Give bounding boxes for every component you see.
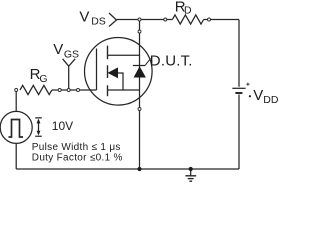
node RD right terminal [208, 18, 211, 21]
svg-text:V: V [79, 8, 89, 25]
wire right rail lower [238, 95, 240, 170]
wire bottom rail [16, 168, 239, 170]
VDS probe [109, 13, 117, 27]
svg-text:Duty Factor ≤0.1 %: Duty Factor ≤0.1 % [32, 152, 123, 163]
wire top rail right (RD to corner) [204, 19, 239, 21]
MOSFET drain contact bar [108, 54, 140, 56]
leader line to D.U.T. label [145, 58, 150, 65]
VGS probe [63, 59, 76, 89]
10V arrow head up [37, 119, 41, 124]
pulse waveform inside generator [9, 120, 24, 138]
ground bar 2 [188, 178, 194, 180]
svg-text:D: D [184, 5, 192, 17]
junction dot ground-bottom rail [189, 167, 193, 171]
svg-text:V: V [253, 87, 263, 104]
svg-text:DD: DD [263, 94, 279, 106]
wire gate (RG to gate bar) [52, 89, 97, 91]
ground bar 3 [189, 180, 192, 182]
ground stem [190, 169, 192, 176]
wire right rail upper [238, 20, 240, 87]
body diode triangle [134, 66, 146, 77]
MOSFET gate bar [96, 49, 98, 91]
node source terminal [138, 108, 141, 111]
MOSFET body arrow tail [117, 73, 124, 90]
MOSFET drain-source vertical line [139, 20, 141, 170]
battery plus sign [246, 83, 249, 86]
ground bar 1 [185, 175, 196, 177]
junction dot source-bottom rail [137, 167, 141, 171]
node RD left terminal [164, 18, 167, 21]
svg-text:G: G [39, 73, 47, 85]
node top rail junction [138, 18, 141, 21]
battery VDD plates [232, 87, 245, 89]
resistor RD [172, 15, 203, 24]
node gate wire terminal 3 [77, 89, 80, 92]
battery minus dot [249, 95, 251, 97]
svg-text:GS: GS [64, 48, 79, 60]
wire RG terminal down to pulse generator [15, 91, 17, 111]
node gate wire terminal 1 [58, 89, 61, 92]
MOSFET channel dash source [107, 85, 109, 96]
MOSFET body arrow head [108, 67, 119, 78]
svg-text:10V: 10V [52, 119, 73, 133]
svg-text:D.U.T.: D.U.T. [150, 53, 193, 70]
pulse generator circle [0, 111, 32, 143]
resistor RG [20, 85, 52, 94]
svg-text:DS: DS [91, 16, 106, 28]
MOSFET source contact bar [108, 89, 140, 91]
10V amplitude arrow [35, 118, 42, 136]
node drain terminal [138, 30, 141, 33]
node gate wire terminal 2 (VGS) [67, 89, 70, 92]
MOSFET channel dash drain [107, 46, 109, 60]
body diode cathode bar [133, 65, 145, 67]
node RG left terminal [15, 89, 18, 92]
wire pulse generator to bottom rail [15, 143, 17, 169]
MOSFET DUT circle [85, 38, 153, 106]
wire top rail left (VDS probe to RD) [117, 19, 173, 21]
svg-text:V: V [53, 41, 63, 58]
MOSFET channel dash body [107, 65, 109, 78]
10V arrow head down [37, 131, 41, 136]
